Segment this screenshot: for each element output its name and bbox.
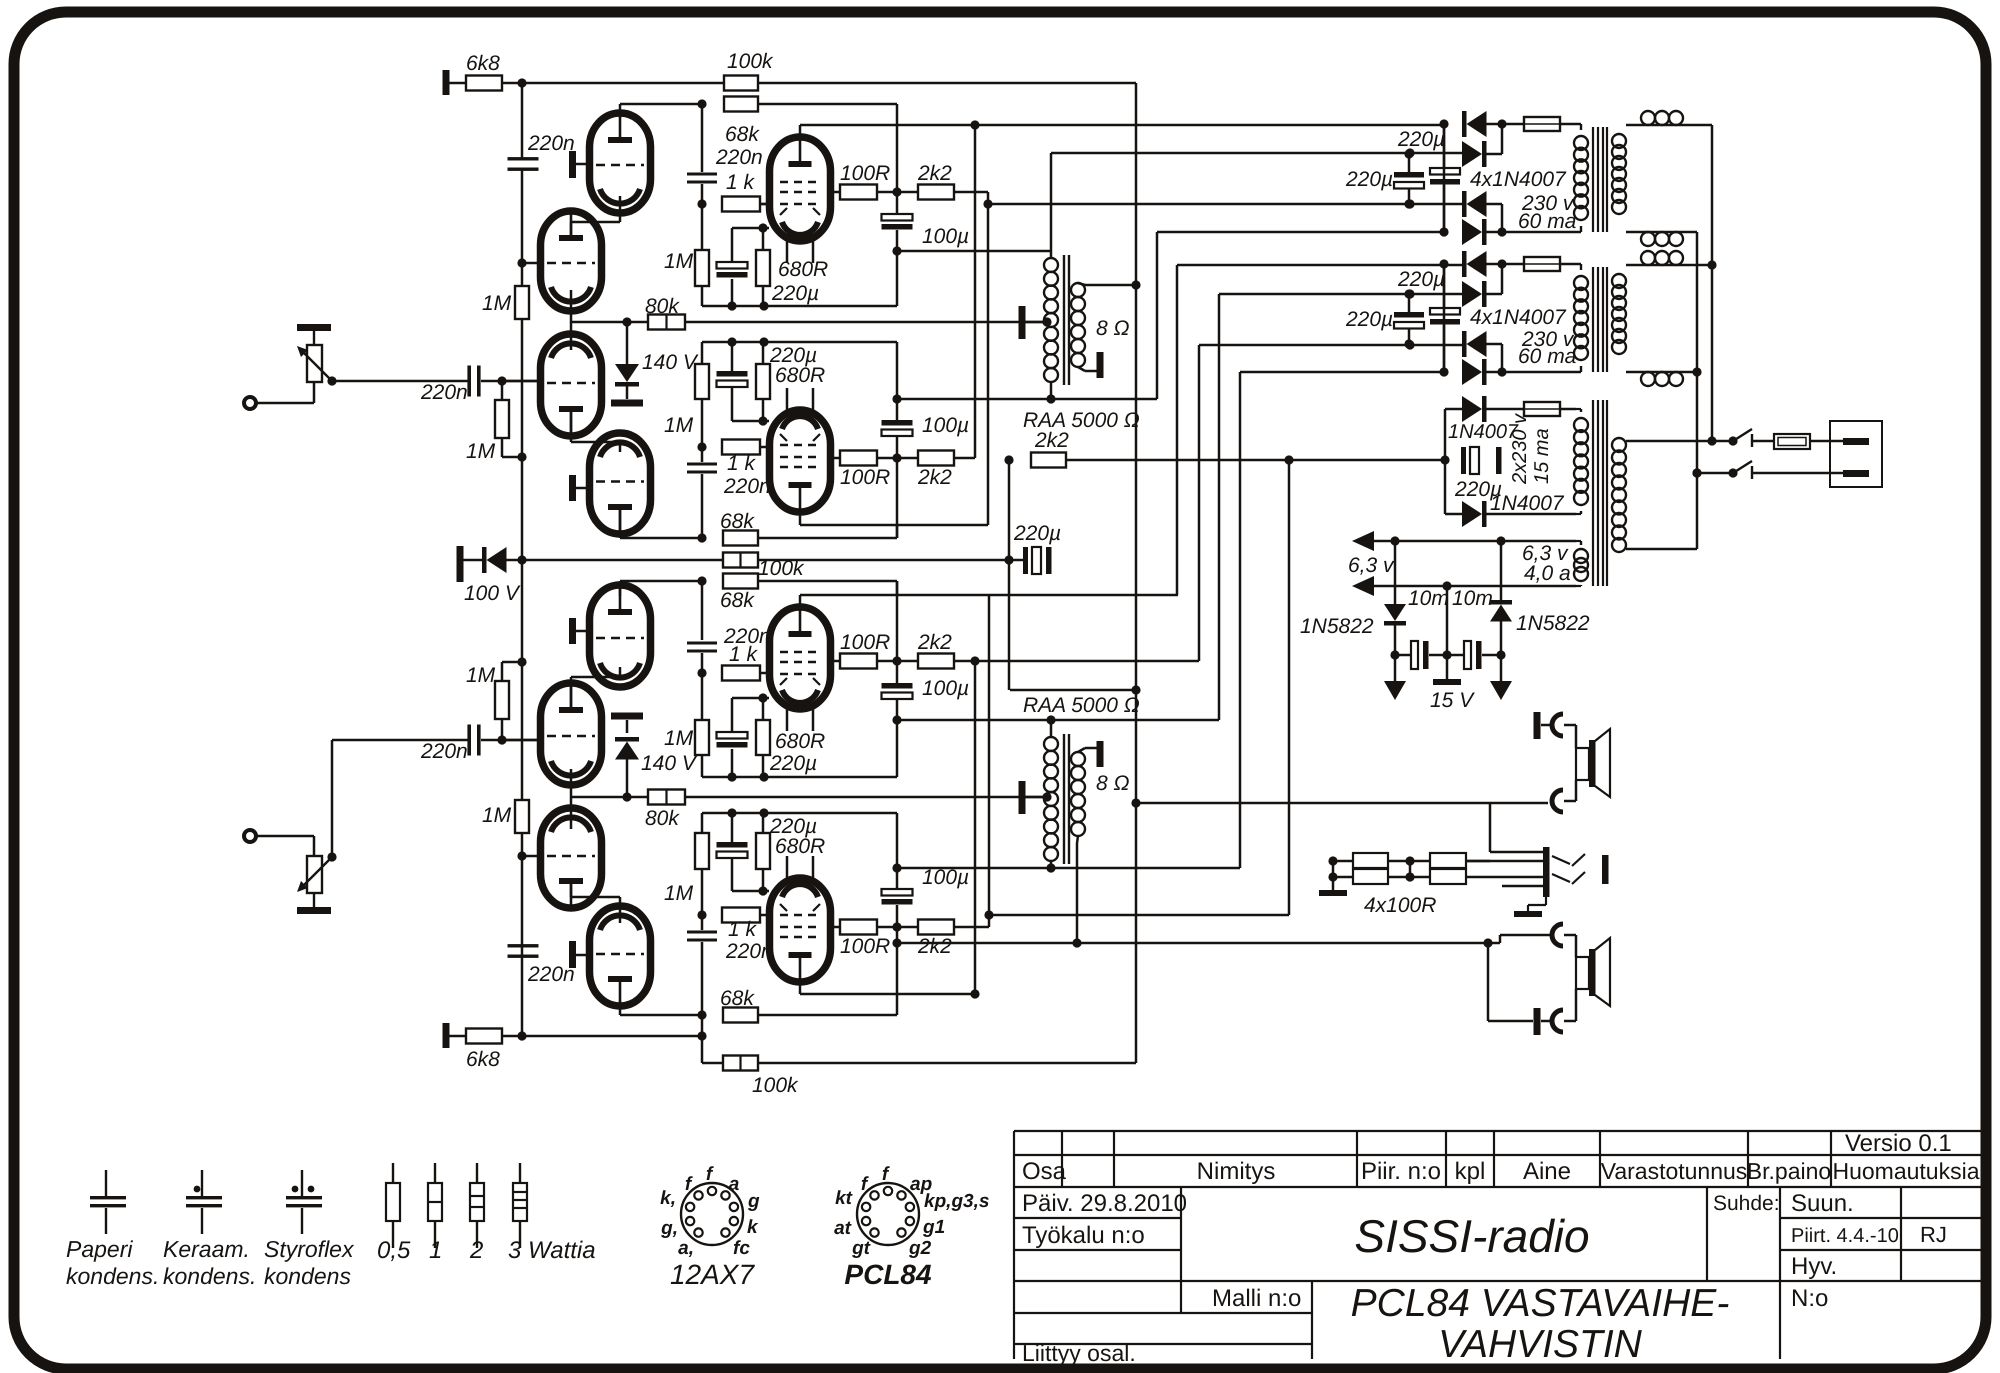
capacitor 220n (coupling to V8)	[687, 931, 717, 934]
resistor 100k (channel 1 top)	[724, 76, 758, 91]
svg-text:Malli n:o: Malli n:o	[1212, 1285, 1301, 1312]
svg-text:3 Wattia: 3 Wattia	[508, 1237, 596, 1264]
resistor 2k2 (V7)	[918, 654, 954, 669]
wire bias row channel 1	[1066, 459, 1445, 462]
wire	[256, 402, 314, 405]
wire x989 ch2 up to V7 plate line	[988, 595, 991, 915]
wire	[1486, 343, 1502, 346]
speaker 1 connector bottom	[1552, 790, 1563, 812]
capacitor 10m (right)	[1447, 654, 1464, 657]
node	[517, 78, 526, 87]
wire V8 grid	[760, 914, 770, 917]
node	[1439, 367, 1448, 376]
node	[984, 910, 993, 919]
svg-text:1 k: 1 k	[728, 918, 758, 941]
ground 15V	[1446, 655, 1449, 679]
terminal bar (100V rail)	[457, 546, 464, 582]
svg-text:Työkalu n:o: Työkalu n:o	[1022, 1222, 1145, 1249]
capacitor 220u (reservoir A)	[1408, 154, 1411, 172]
terminal bar	[1496, 447, 1502, 474]
svg-text:1 k: 1 k	[729, 643, 759, 666]
transformer core	[1592, 267, 1594, 372]
node	[697, 1010, 706, 1019]
resistor 2k2 (V8)	[918, 920, 954, 935]
svg-text:60 ma: 60 ma	[1518, 210, 1576, 233]
resistor 1M (V8)	[695, 833, 709, 869]
wire	[954, 660, 975, 663]
svg-text:680R: 680R	[778, 258, 828, 281]
wire	[521, 168, 524, 263]
node	[1405, 199, 1414, 208]
input jack J2 (channel 2)	[244, 830, 256, 842]
rectifier diode (row3)	[1462, 191, 1467, 217]
rectifier diode (row4)	[1462, 219, 1482, 245]
svg-text:Nimitys: Nimitys	[1197, 1158, 1276, 1185]
resistor 100R (V7)	[840, 654, 877, 669]
wire T2 primary top	[1050, 720, 1053, 737]
resistor 1M (grid leak, channel 2)	[495, 681, 509, 719]
svg-text:10m: 10m	[1408, 587, 1449, 610]
svg-text:kondens.: kondens.	[66, 1263, 159, 1289]
node	[1496, 650, 1505, 659]
svg-text:12AX7: 12AX7	[670, 1259, 755, 1290]
node	[1404, 339, 1413, 348]
wire	[877, 660, 918, 663]
resistor 68k (channel 2 bottom)	[723, 1008, 758, 1023]
bus wire (V4 top)	[702, 341, 897, 344]
rail wire channel 2	[521, 947, 524, 1036]
resistor 1k (grid stopper V3)	[722, 197, 760, 212]
wire	[331, 740, 334, 857]
mains plug	[1830, 421, 1882, 487]
triode V2a (channel 1, inverted)	[541, 334, 602, 436]
wire	[1486, 231, 1502, 234]
node	[1404, 199, 1413, 208]
supply terminal (channel 1 top)	[443, 70, 450, 95]
V2b grid terminal bar	[569, 475, 576, 501]
transformer 2 primary top jumper coil	[1641, 251, 1655, 265]
wire	[481, 739, 541, 742]
wire bias riser x1289	[1288, 460, 1291, 915]
bias winding	[1574, 418, 1588, 432]
svg-text:100µ: 100µ	[922, 866, 969, 889]
pentode V8 PCL84 (channel 2 lower, inverted)	[770, 878, 831, 982]
wire V6b plate to 68k row	[619, 581, 622, 596]
wire x975 ch2 down	[974, 661, 977, 994]
chassis terminal below P2	[297, 907, 331, 914]
wire V7 grid	[760, 672, 770, 675]
chassis terminal above P1	[297, 324, 331, 331]
legend: resistor 2W	[476, 1163, 478, 1183]
pentode V4 PCL84 (channel 1 lower, inverted)	[770, 410, 831, 512]
svg-text:1M: 1M	[664, 414, 694, 437]
headphone jack sleeve bar	[1543, 847, 1550, 897]
wire V8 cathode to bypass network	[732, 890, 769, 893]
capacitor 100u (V8)	[896, 813, 899, 889]
wire block2 row4 feed x1240	[1239, 372, 1242, 868]
resistor 680R (V7)	[756, 720, 770, 755]
resistor 100R a (speaker pad)	[1353, 853, 1388, 868]
legend: paper capacitor symbol	[105, 1170, 107, 1196]
svg-text:k: k	[747, 1217, 759, 1238]
supply terminal (channel 2 bottom)	[443, 1023, 450, 1048]
svg-text:1M: 1M	[664, 250, 694, 273]
svg-text:220µ: 220µ	[1345, 308, 1393, 331]
resistor 100R (V4)	[840, 451, 877, 466]
pentode V3 PCL84 (channel 1 upper)	[770, 137, 831, 241]
svg-text:15 V: 15 V	[1430, 689, 1475, 712]
tube socket diagram 12AX7	[681, 1183, 743, 1245]
resistor 1M (grid leak, channel 1)	[495, 400, 509, 438]
wire	[758, 1014, 897, 1017]
pentode V7 PCL84 (channel 2 upper)	[770, 607, 831, 709]
svg-text:PCL84 VASTAVAIHE-: PCL84 VASTAVAIHE-	[1351, 1282, 1730, 1325]
node	[697, 199, 706, 208]
node	[892, 187, 901, 196]
node	[1483, 938, 1492, 947]
wire	[576, 487, 590, 490]
speaker 2 terminal bar	[1534, 1008, 1541, 1035]
wire	[701, 653, 704, 673]
wire y720 to transformer 2 primary top	[897, 719, 1219, 722]
triode V5a (channel 2, inverted)	[590, 906, 651, 1006]
svg-text:220n: 220n	[420, 740, 468, 763]
wire 80k row ch2	[571, 796, 648, 799]
zener terminal bar ch2	[611, 713, 643, 720]
node	[517, 258, 526, 267]
wire V8 plate line	[799, 982, 802, 994]
arrow terminal (6.3v line 1)	[1352, 531, 1374, 551]
rectifier diode (row3)	[1462, 331, 1467, 357]
rail wire (channel 1 grid rail)	[521, 83, 524, 160]
node	[1390, 536, 1399, 545]
svg-text:100µ: 100µ	[922, 414, 969, 437]
wire	[701, 104, 704, 172]
jack ground lug	[1545, 897, 1547, 905]
wire	[313, 382, 316, 403]
T1 secondary 8 ohm	[1071, 283, 1085, 297]
wires 4x100R mid	[1388, 860, 1430, 863]
svg-text:kondens.: kondens.	[163, 1263, 256, 1289]
triode V1b (channel 1)	[541, 211, 602, 311]
wire x1500 column	[1499, 935, 1502, 943]
wire bus2 top	[1711, 125, 1714, 441]
resistor 1M (V4)	[695, 364, 709, 399]
bus wire (V8 top is cathode bus ch2)	[702, 812, 897, 815]
wire	[521, 319, 524, 457]
wire V2a cathode up to 80k node	[570, 322, 573, 350]
wire V1a cathode to V1b plate	[619, 196, 622, 222]
speaker 2 connector top	[1552, 924, 1563, 946]
capacitor 220u (V8 bypass)	[731, 813, 734, 842]
node	[697, 442, 706, 451]
svg-text:Paperi: Paperi	[66, 1236, 133, 1262]
svg-text:1M: 1M	[664, 882, 694, 905]
wire bus1 to switch2	[1692, 468, 1701, 477]
svg-text:g,: g,	[660, 1218, 678, 1239]
resistor 2k2 (V3)	[918, 185, 954, 200]
bias rectifier diode 1N4007 (top)	[1445, 408, 1462, 411]
capacitor 220n (rail, channel 2)	[508, 944, 539, 947]
node	[1440, 455, 1449, 464]
V7 heater stubs	[786, 709, 789, 731]
svg-text:6,3 v: 6,3 v	[1348, 554, 1395, 577]
svg-text:100R: 100R	[840, 162, 890, 185]
mains primary winding	[1612, 438, 1626, 452]
node	[1390, 650, 1399, 659]
wire T2 secondary top lead	[1078, 748, 1085, 752]
zener diode 140V (channel 1)	[626, 322, 629, 364]
wire speaker feed ch2 (y943)	[897, 942, 1500, 945]
T1 chassis terminal left	[1019, 306, 1026, 339]
wire T1 secondary top lead	[1078, 283, 1085, 285]
node	[1046, 394, 1055, 403]
speaker 1 connector pair top	[1534, 712, 1541, 739]
switch contact 1	[1751, 434, 1753, 447]
node	[1497, 259, 1506, 268]
capacitor 220u (reservoir B)	[1443, 264, 1446, 308]
wire V6a grid to input wire	[502, 739, 541, 742]
wire	[685, 796, 1044, 799]
wire V3 g2	[829, 191, 840, 194]
wires 4x100R left	[1333, 860, 1353, 863]
wire	[701, 286, 704, 306]
wire	[701, 755, 704, 777]
svg-text:g2: g2	[908, 1238, 932, 1259]
svg-text:6k8: 6k8	[466, 1048, 500, 1071]
node	[1496, 536, 1505, 545]
svg-text:1M: 1M	[664, 727, 694, 750]
node	[892, 715, 901, 724]
wire V4 plate line	[799, 512, 802, 525]
svg-text:Styroflex: Styroflex	[264, 1236, 355, 1262]
svg-text:2k2: 2k2	[917, 631, 952, 654]
wire V7 plate line	[799, 595, 802, 607]
resistor 100k (channel 2 bottom)	[723, 1056, 758, 1071]
mains fuse	[1774, 434, 1810, 449]
svg-text:220µ: 220µ	[769, 344, 817, 367]
node	[1707, 436, 1716, 445]
wire	[701, 673, 704, 720]
svg-text:1M: 1M	[466, 664, 496, 687]
wire	[701, 447, 704, 462]
node	[1497, 367, 1506, 376]
transformer primary winding	[1612, 274, 1626, 288]
svg-text:Varastotunnus: Varastotunnus	[1601, 1158, 1748, 1184]
resistor 680R (V3 cathode)	[756, 250, 770, 286]
svg-text:680R: 680R	[775, 835, 825, 858]
resistor 100k (shared mid)	[723, 553, 758, 568]
node	[970, 656, 979, 665]
node	[1284, 455, 1293, 464]
capacitor 220u (bias)	[1461, 447, 1466, 474]
node	[1072, 938, 1081, 947]
svg-text:PCL84: PCL84	[844, 1259, 932, 1290]
svg-text:80k: 80k	[645, 807, 680, 830]
wire V7 g2	[829, 660, 840, 663]
jack switch break marks	[1572, 854, 1585, 866]
switch pole 1	[1728, 436, 1737, 445]
wire	[1486, 293, 1502, 296]
wire	[1575, 989, 1578, 1021]
wire mains primary bottom	[1626, 548, 1697, 551]
rectifier diode (row2)	[1462, 281, 1482, 307]
wire V8 g2	[829, 926, 840, 929]
wire	[896, 437, 899, 538]
zener diode 140V (channel 2)	[626, 755, 629, 797]
svg-text:Piirt. 4.4.-10: Piirt. 4.4.-10	[1791, 1225, 1899, 1247]
svg-text:100µ: 100µ	[922, 677, 969, 700]
wire	[1443, 325, 1446, 372]
svg-text:10m: 10m	[1452, 587, 1493, 610]
node	[697, 533, 706, 542]
wire	[1486, 408, 1524, 411]
resistor 1k (V7 grid)	[722, 666, 760, 681]
svg-text:100k: 100k	[727, 50, 774, 73]
cathode bus (V3)	[702, 305, 897, 308]
svg-text:a: a	[729, 1174, 740, 1195]
node: wiper junction	[327, 376, 336, 385]
wire	[1446, 586, 1449, 655]
wire V2a grid to input wire	[502, 380, 541, 383]
wire jog y690	[1010, 689, 1136, 692]
node	[622, 792, 631, 801]
wire	[701, 399, 704, 447]
node	[517, 555, 526, 564]
capacitor 220n (coupling to V4)	[687, 463, 717, 466]
diode 100V (shared bias)	[482, 547, 487, 573]
svg-text:a,: a,	[678, 1238, 694, 1259]
wire	[576, 954, 590, 957]
wire	[506, 559, 522, 562]
wire V6a cathode down to 80k node	[570, 769, 573, 797]
wire 80k row	[571, 321, 648, 324]
fuse (bias)	[1524, 402, 1560, 416]
wire	[760, 203, 770, 206]
wire V3 cathode to bypass network	[762, 228, 765, 250]
svg-text:68k: 68k	[725, 123, 760, 146]
wire	[1486, 153, 1502, 156]
speaker 2 connector bottom	[1552, 1010, 1563, 1032]
svg-text:VAHVISTIN: VAHVISTIN	[1438, 1323, 1643, 1366]
wire	[701, 581, 704, 640]
resistor 100R (V8)	[840, 920, 877, 935]
node	[1131, 798, 1140, 807]
wire	[1564, 724, 1576, 727]
V5a grid terminal bar	[569, 941, 576, 968]
triode V2b (channel 1)	[590, 433, 651, 534]
wire	[701, 204, 704, 250]
svg-text:15 ma: 15 ma	[1531, 428, 1553, 484]
ground (pad network)	[1319, 890, 1347, 896]
triode V5b (channel 2, inverted)	[541, 808, 602, 908]
resistor 680R (V4)	[756, 364, 770, 399]
resistor 68k (channel 1 top)	[724, 97, 758, 112]
resistor 680R (V8)	[756, 833, 770, 869]
svg-text:2x230 v: 2x230 v	[1509, 413, 1531, 485]
wire y868 transformer 2 primary bottom	[897, 867, 1240, 870]
wire	[701, 474, 704, 538]
transformer 1 primary bottom jumper coil	[1641, 232, 1655, 246]
node	[517, 1031, 526, 1040]
wire V3 grid	[760, 203, 770, 206]
wire	[1443, 124, 1446, 232]
wire	[877, 926, 918, 929]
svg-text:Aine: Aine	[1523, 1158, 1571, 1185]
wire	[877, 191, 918, 194]
T1 core	[1063, 255, 1065, 385]
rectifier diode (row4)	[1462, 359, 1482, 385]
wire 100k to NFB corner	[758, 82, 1136, 85]
wire heater line 2	[1372, 585, 1576, 588]
arrow terminal (6.3v line 2)	[1352, 576, 1374, 596]
resistor 6k8 (channel 1)	[466, 76, 502, 91]
wire L4 feed (y232)	[1157, 231, 1444, 234]
wire V4 g2 to 100R	[829, 457, 840, 460]
node	[892, 656, 901, 665]
wire	[1486, 371, 1502, 374]
node	[497, 735, 506, 744]
svg-text:1M: 1M	[466, 440, 496, 463]
svg-text:fc: fc	[733, 1238, 750, 1259]
node	[1707, 260, 1716, 269]
node	[983, 199, 992, 208]
wire heater line 1	[1372, 540, 1576, 543]
wire	[1009, 559, 1023, 562]
resistor 2k2 RAA (channel 1)	[1031, 453, 1066, 468]
node	[970, 989, 979, 998]
wire V1a plate to 68k row	[619, 104, 622, 118]
svg-text:60 ma: 60 ma	[1518, 345, 1576, 368]
speaker 2 (channel 2)	[1576, 957, 1589, 989]
svg-text:100k: 100k	[752, 1074, 799, 1097]
svg-text:8 Ω: 8 Ω	[1096, 772, 1130, 795]
wire block2 row1 feed x1177	[1176, 265, 1179, 595]
svg-text:220n: 220n	[527, 132, 575, 155]
wire	[1486, 263, 1524, 266]
resistor 1k (V4 grid)	[722, 440, 760, 455]
resistor 1M (V3 grid, channel 1)	[695, 250, 709, 286]
wire block2 row2 feed x1219	[1218, 294, 1221, 720]
rectifier diode (row2)	[1462, 141, 1482, 167]
svg-text:1M: 1M	[482, 292, 512, 315]
svg-text:1N5822: 1N5822	[1516, 612, 1590, 635]
wire	[1486, 203, 1502, 206]
svg-text:4x100R: 4x100R	[1364, 894, 1436, 917]
resistor 1M (V7)	[695, 720, 709, 755]
svg-text:Keraam.: Keraam.	[163, 1236, 250, 1262]
wires 4x100R right	[1466, 860, 1490, 863]
wire 2k2 to corner	[954, 191, 988, 194]
resistor 80k (channel 1)	[648, 315, 685, 330]
capacitor 220u (V7 bypass)	[731, 749, 734, 777]
svg-text:220n: 220n	[723, 475, 771, 498]
svg-text:2: 2	[469, 1237, 483, 1264]
wire shared row	[522, 559, 723, 562]
V8 heater stubs	[786, 856, 789, 878]
potentiometer P2 (volume, channel 2)	[307, 856, 322, 893]
resistor 68k (channel 1 mid)	[620, 537, 702, 540]
wire	[463, 559, 482, 562]
wire	[256, 835, 314, 838]
node	[517, 851, 526, 860]
capacitor 10m (left)	[1395, 654, 1411, 657]
rectifier diode (row1)	[1462, 111, 1467, 137]
capacitor 220n (input coupling, channel 2)	[467, 725, 471, 756]
down arrow terminal (left)	[1394, 655, 1397, 681]
node	[1405, 340, 1414, 349]
resistor 80k (channel 2)	[648, 790, 685, 805]
